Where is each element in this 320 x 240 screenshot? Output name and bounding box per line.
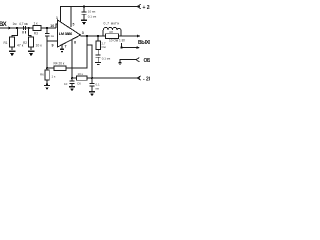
svg-text:R1: R1 [4, 41, 8, 45]
ground G5 [95, 62, 101, 64]
svg-text:1: 1 [56, 16, 58, 20]
svg-text:+ 28: + 28 [143, 5, 151, 11]
svg-text:1 к: 1 к [34, 22, 39, 26]
resistor R5 mute [77, 76, 88, 80]
svg-text:1м: 1м [51, 34, 55, 38]
svg-text:Ом: Ом [102, 45, 106, 49]
capacitor C1 [23, 26, 25, 30]
svg-text:R8: R8 [110, 30, 114, 34]
wire output right [119, 35, 138, 37]
supply rail +28 [60, 6, 140, 8]
svg-text:9: 9 [52, 44, 54, 48]
wire output [81, 35, 107, 37]
terminal OUT2 arrow [137, 46, 141, 49]
capacitor C7 [90, 83, 95, 91]
resistor R4 feedback [54, 66, 66, 70]
node J2 [28, 27, 30, 29]
svg-text:ВХ: ВХ [0, 22, 7, 28]
wire C2 down [46, 41, 48, 70]
capacitor C4 zobel [96, 49, 101, 61]
svg-text:С6: С6 [77, 82, 81, 86]
terminal +28 [137, 4, 140, 8]
svg-text:10 к: 10 к [78, 72, 84, 76]
node J6 [97, 35, 99, 37]
inductor L1 [103, 27, 121, 36]
resistor R1 [10, 37, 15, 47]
node J4 [83, 5, 85, 7]
svg-text:10 к: 10 к [36, 44, 43, 48]
node J3 [46, 27, 48, 29]
svg-text:0,1 мк: 0,1 мк [88, 15, 97, 19]
resistor R8 output [106, 34, 119, 39]
resistor R6 [45, 70, 49, 80]
svg-text:R3: R3 [34, 31, 38, 35]
svg-text:0,1 мк: 0,1 мк [102, 56, 111, 60]
node J5 [86, 35, 88, 37]
svg-text:- 28: - 28 [143, 77, 150, 83]
ground G9 [44, 84, 50, 86]
op-amp U1 LM3886 [58, 20, 81, 47]
capacitor C2 [45, 28, 50, 41]
wire V+ pin 5 [70, 7, 72, 28]
wire R2 ground stem [30, 47, 32, 50]
wire pin 8 mute [71, 40, 73, 79]
svg-text:R2: R2 [23, 41, 27, 45]
node J1 [16, 27, 18, 29]
svg-text:ВЫХОД: ВЫХОД [138, 40, 150, 46]
wire to pin 10 [56, 24, 58, 28]
svg-text:R6: R6 [40, 73, 44, 77]
svg-text:1 к: 1 к [52, 75, 57, 79]
wire R2 feed [29, 28, 31, 37]
svg-text:4,7 мк: 4,7 мк [19, 22, 29, 26]
svg-text:5: 5 [73, 23, 75, 27]
ground G8 [89, 91, 95, 93]
wire R1 ground stem [11, 47, 13, 50]
ground G7 [69, 86, 75, 88]
svg-text:10 Ом 1 Вт: 10 Ом 1 Вт [109, 39, 126, 43]
wire common [120, 60, 136, 63]
wire R6 ground stem [46, 80, 48, 85]
terminal common [136, 58, 139, 62]
wire input [0, 27, 56, 29]
ground G4 pin 7 [60, 45, 64, 50]
wire V+ pin 1 [60, 7, 62, 22]
supply rail -28 [72, 77, 140, 79]
svg-text:R4 20 к: R4 20 к [54, 62, 65, 66]
svg-text:10: 10 [64, 82, 68, 86]
svg-text:LM 3886: LM 3886 [59, 32, 72, 36]
terminal -28 [137, 76, 140, 80]
svg-text:10: 10 [50, 24, 54, 28]
wire branch to C7 [87, 45, 92, 83]
svg-text:0,7 мкГн: 0,7 мкГн [104, 22, 120, 26]
terminal OUT arrow [137, 35, 141, 38]
resistor R9 zobel [97, 36, 99, 41]
svg-text:8: 8 [74, 41, 76, 45]
ground G1 [9, 50, 16, 52]
wire output return [122, 43, 137, 48]
ground G6 [119, 63, 122, 65]
ground G3 [81, 19, 87, 21]
resistor R2 [29, 37, 34, 47]
wire feedback drop [47, 36, 87, 68]
wire R1 feed [12, 28, 18, 37]
svg-text:ОБЩ: ОБЩ [144, 58, 151, 64]
node input arrow [9, 27, 12, 30]
svg-text:3: 3 [82, 31, 84, 35]
capacitor C3 [82, 7, 87, 20]
wire pin 9 [47, 40, 58, 42]
ground G2 [28, 50, 35, 52]
capacitor C5 mute [70, 78, 75, 86]
node J7 [120, 47, 122, 49]
svg-text:1м: 1м [13, 22, 17, 26]
svg-text:10 мк: 10 мк [88, 10, 96, 14]
resistor R3 [33, 26, 41, 31]
svg-text:мк: мк [96, 87, 100, 91]
node J8 [46, 67, 48, 69]
svg-text:7: 7 [65, 45, 67, 49]
